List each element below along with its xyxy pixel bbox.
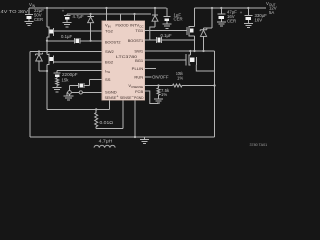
- wire M2 source to sense: [47, 71, 110, 109]
- svg-text:ON/OFF: ON/OFF: [152, 75, 169, 80]
- capacitor SS 0.01uF: [70, 83, 85, 96]
- svg-text:SS: SS: [105, 77, 111, 82]
- svg-text:RUN: RUN: [134, 75, 143, 80]
- svg-text:5A: 5A: [269, 10, 274, 15]
- wire VOSENSE: [145, 84, 216, 86]
- svg-text:0.1μF: 0.1μF: [161, 33, 172, 38]
- capacitor ITH 2200pF: [54, 71, 78, 79]
- svg-text:VIN: VIN: [105, 23, 111, 29]
- transistor M1 (switch A): [47, 8, 53, 41]
- svg-text:FCB: FCB: [135, 89, 143, 94]
- svg-text:1%: 1%: [177, 75, 183, 80]
- node VOUT label: [266, 1, 277, 15]
- svg-text:CER: CER: [227, 19, 236, 24]
- ground COUT2: [244, 23, 253, 27]
- wire INTVCC stub: [133, 13, 135, 21]
- svg-text:4V TO 36V: 4V TO 36V: [1, 9, 29, 14]
- wire SENSE+: [109, 100, 111, 109]
- svg-text:CER: CER: [174, 17, 183, 22]
- transistor M2 (switch B): [47, 41, 53, 71]
- svg-text:BOOST2: BOOST2: [105, 39, 121, 44]
- diode D boost2 bootstrap: [87, 13, 93, 42]
- svg-text:4.7μH: 4.7μH: [99, 138, 113, 143]
- wire SW1: [145, 50, 215, 137]
- wire BG1: [145, 59, 187, 61]
- wire SGND: [67, 91, 102, 96]
- svg-text:CER: CER: [34, 17, 43, 22]
- capacitor CB1 0.1uF: [145, 33, 195, 43]
- svg-text:PGND: PGND: [134, 95, 144, 100]
- ground bottom: [140, 137, 149, 144]
- ground divider: [154, 99, 163, 103]
- capacitor CB2 0.1uF: [47, 34, 102, 44]
- svg-text:15k: 15k: [62, 78, 70, 83]
- svg-text:3780 TA01: 3780 TA01: [250, 143, 268, 147]
- diode D2 schottky: [36, 50, 43, 71]
- svg-text:2200pF: 2200pF: [62, 72, 78, 77]
- svg-text:SENSE: SENSE: [120, 95, 132, 100]
- svg-text:TG1: TG1: [135, 28, 144, 33]
- capacitor INTVCC 4.7uF: [62, 8, 84, 22]
- svg-text:SENSE: SENSE: [105, 95, 117, 100]
- wire bottom rail: [30, 136, 215, 138]
- ground 1uF: [162, 24, 171, 28]
- wire VOUT top rail: [195, 7, 267, 9]
- ground SGND: [64, 96, 74, 100]
- wire ITH: [57, 70, 102, 72]
- wire PGOOD stub: [119, 14, 121, 21]
- capacitor COUT2 330uF: [240, 7, 267, 23]
- figure tag 3780 TA01: [250, 143, 268, 147]
- capacitor CIN 22uF: [25, 8, 44, 22]
- node M2 source junction: [39, 70, 48, 72]
- svg-text:1%: 1%: [161, 92, 167, 97]
- wire RUN / ON-OFF: [145, 75, 169, 80]
- wire PLLIN stub: [145, 68, 156, 70]
- resistor 7.5k 1%: [157, 86, 170, 99]
- wire VIN pin stub: [105, 7, 107, 21]
- svg-text:SW2: SW2: [105, 49, 115, 54]
- ground ITH: [53, 88, 62, 92]
- wire BG2: [53, 61, 102, 63]
- svg-text:BOOST1: BOOST1: [128, 38, 144, 43]
- wire TG2: [53, 30, 102, 32]
- svg-text:LTC3780: LTC3780: [116, 54, 138, 59]
- wire VIN top rail: [29, 7, 167, 9]
- node rail-M1 junction: [46, 7, 48, 9]
- svg-text:4.7μF: 4.7μF: [73, 14, 84, 19]
- svg-text:PLLIN: PLLIN: [132, 66, 144, 71]
- transistor M4 (switch D): [187, 8, 195, 51]
- svg-text:0.1μF: 0.1μF: [61, 34, 72, 39]
- transistor M3 (switch C): [186, 50, 214, 71]
- capacitor 1uF CER: [163, 8, 182, 24]
- resistor 105k 1%: [173, 71, 184, 87]
- node SW2 junction: [46, 50, 48, 52]
- wire SW2: [30, 52, 102, 138]
- svg-text:BG2: BG2: [105, 60, 114, 65]
- node BOOST2 junction: [46, 40, 48, 42]
- wire SS: [84, 79, 102, 85]
- wire FCB: [145, 91, 159, 104]
- svg-text:ITH: ITH: [105, 68, 110, 74]
- wire INTVCC line: [67, 13, 151, 15]
- inductor L1 4.7uH: [94, 138, 115, 147]
- wire PGND: [134, 100, 136, 137]
- svg-text:0.01Ω: 0.01Ω: [100, 120, 114, 125]
- resistor ITH 15k: [56, 78, 70, 88]
- svg-text:SGND: SGND: [105, 90, 117, 95]
- svg-text:PGOOD: PGOOD: [116, 23, 129, 28]
- node PGND junction: [134, 136, 136, 138]
- diode D boost1 bootstrap: [150, 7, 158, 40]
- resistor RSENSE 0.01: [95, 108, 114, 128]
- svg-text:TG2: TG2: [105, 29, 114, 34]
- svg-text:16V: 16V: [255, 17, 263, 22]
- IC U1 LTC3780 chip body: [102, 21, 145, 101]
- capacitor COUT1 47uF: [217, 7, 237, 24]
- wire TG1: [145, 29, 187, 31]
- node VIN label: [1, 2, 36, 14]
- wire SENSE-: [96, 100, 123, 128]
- ground input cap: [25, 21, 34, 25]
- ground 4.7uF: [62, 23, 71, 27]
- ground COUT1: [217, 22, 226, 26]
- diode D4 schottky: [200, 7, 213, 52]
